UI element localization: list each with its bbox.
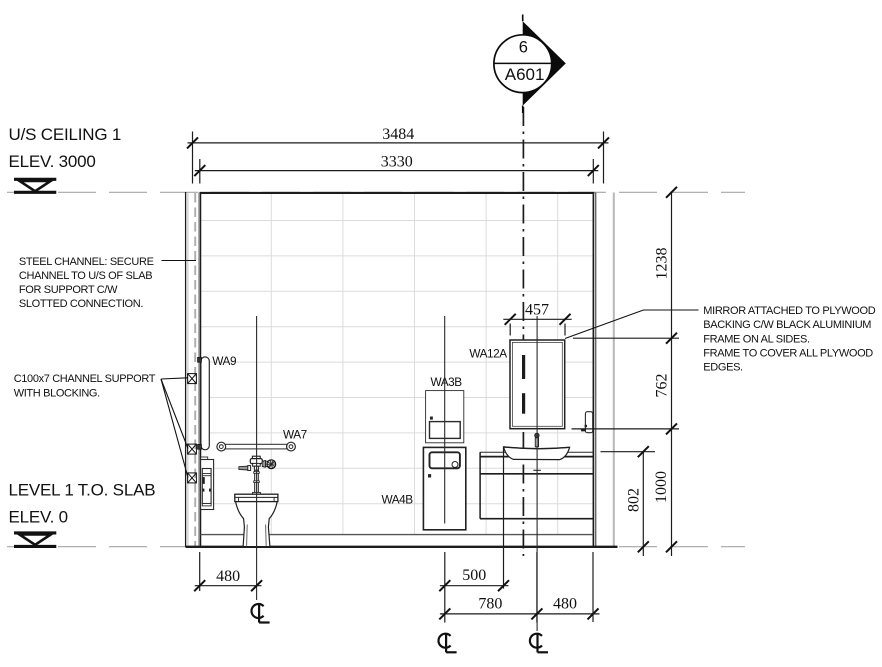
svg-text:480: 480 — [216, 568, 240, 585]
bottom dimension 500 — [440, 447, 509, 623]
blocking box 1 — [188, 374, 197, 384]
svg-text:802: 802 — [625, 488, 642, 512]
section marker A601 — [494, 15, 566, 114]
tick 780 mid — [531, 608, 542, 619]
svg-text:ELEV. 0: ELEV. 0 — [9, 508, 68, 527]
svg-text:ELEV. 3000: ELEV. 3000 — [9, 152, 96, 171]
tick 3484 right — [598, 137, 609, 148]
svg-text:FOR SUPPORT C/W: FOR SUPPORT C/W — [19, 284, 118, 296]
svg-text:MIRROR ATTACHED TO PLYWOOD: MIRROR ATTACHED TO PLYWOOD — [703, 305, 875, 317]
tick 480L right — [251, 580, 262, 591]
svg-text:762: 762 — [654, 374, 671, 398]
svg-text:480: 480 — [553, 595, 577, 612]
dispenser WA3B/WA4B centerline — [444, 316, 446, 524]
floor datum symbol — [14, 533, 56, 547]
steel channel dashed line — [194, 193, 196, 546]
tile grid verticals — [271, 194, 557, 535]
grab bar WA7 horizontal — [217, 442, 295, 451]
tick 480L left — [194, 580, 205, 591]
left wall outer line — [185, 192, 187, 547]
flush valve knurled knob — [267, 460, 276, 469]
dimension 3330 — [195, 159, 599, 184]
vanity drawer line — [480, 473, 593, 475]
WA9 wall mount bottom — [198, 444, 202, 449]
tick 500 right — [498, 580, 509, 591]
svg-text:EDGES.: EDGES. — [703, 362, 743, 374]
dimension 457 — [503, 319, 571, 335]
vessel sink bowl — [504, 447, 570, 460]
tick chain floor — [666, 541, 677, 552]
centerline symbol dispenser — [439, 634, 457, 653]
tick 457 right — [560, 314, 571, 325]
right wall inner face — [592, 192, 594, 547]
toilet paper dispenser unit — [201, 457, 214, 510]
mirror WA12A — [510, 340, 565, 429]
left wall gray liner — [187, 193, 189, 547]
tick chain mirror top — [666, 333, 677, 344]
svg-text:WA12A: WA12A — [469, 346, 507, 360]
section line inside mirror (heavy dashes) — [522, 355, 525, 414]
svg-text:3330: 3330 — [381, 154, 413, 171]
ceiling level dashed line — [7, 191, 745, 193]
tile grid horizontals — [201, 221, 593, 504]
bottom dimension 780 — [440, 552, 600, 623]
vanity left edge — [479, 452, 481, 519]
tick 3330 right — [588, 165, 599, 176]
paper towel dispenser WA3B — [426, 391, 464, 443]
right wall second line — [595, 193, 597, 547]
grab bar WA9 vertical — [201, 357, 209, 450]
svg-text:CHANNEL TO U/S OF SLAB: CHANNEL TO U/S OF SLAB — [19, 270, 152, 282]
svg-text:1238: 1238 — [654, 248, 671, 280]
svg-text:WITH BLOCKING.: WITH BLOCKING. — [14, 388, 100, 400]
left wall gray inner liner — [198, 193, 200, 547]
svg-text:457: 457 — [525, 301, 549, 318]
tick 802 floor — [638, 541, 649, 552]
svg-text:BACKING C/W BLACK ALUMINIUM: BACKING C/W BLACK ALUMINIUM — [703, 319, 871, 331]
sink centerline — [536, 316, 538, 631]
sink rim line — [504, 447, 570, 449]
svg-text:SLOTTED CONNECTION.: SLOTTED CONNECTION. — [19, 298, 143, 310]
svg-text:A601: A601 — [505, 65, 545, 84]
waste receptacle WA4B — [423, 447, 465, 529]
toilet WC — [235, 494, 278, 546]
tick 802 top — [638, 446, 649, 457]
WA9 wall mount top — [198, 357, 202, 362]
toilet fixture centerline — [256, 316, 258, 600]
left wall inner face — [199, 192, 201, 547]
svg-text:U/S CEILING 1: U/S CEILING 1 — [9, 125, 122, 144]
bottom dimension 480 left — [195, 552, 262, 591]
centerline symbol toilet — [252, 604, 270, 623]
ceiling datum symbol — [14, 179, 56, 192]
right dimension chain line — [572, 192, 680, 556]
vanity counter top — [480, 451, 593, 453]
floor level dashed line — [7, 546, 745, 548]
blocking box 3 — [188, 473, 197, 483]
right wall gray outer line — [613, 193, 615, 547]
tick 480R right — [588, 608, 599, 619]
blocking box 2 — [188, 444, 197, 454]
section cut centerline — [522, 107, 524, 556]
svg-text:WA4B: WA4B — [382, 493, 414, 507]
centerline symbol sink — [530, 634, 548, 653]
tick 500 left — [439, 580, 450, 591]
tick 457 left — [505, 314, 516, 325]
svg-text:STEEL CHANNEL: SECURE: STEEL CHANNEL: SECURE — [19, 256, 154, 268]
svg-text:WA3B: WA3B — [431, 375, 463, 389]
svg-text:WA7: WA7 — [283, 427, 307, 441]
svg-text:500: 500 — [462, 567, 486, 584]
room ceiling line — [200, 192, 595, 194]
sink centerline cross tick — [533, 469, 541, 471]
tick 3484 left — [187, 137, 198, 148]
tick chain ceiling — [666, 187, 677, 198]
svg-text:6: 6 — [519, 38, 528, 56]
C100x7 leaders — [161, 378, 188, 478]
svg-text:FRAME ON AL SIDES.: FRAME ON AL SIDES. — [703, 333, 810, 345]
dimension 3484 — [188, 132, 609, 184]
tick 3330 left — [194, 165, 205, 176]
vanity bottom — [480, 518, 593, 520]
svg-text:780: 780 — [478, 595, 502, 612]
svg-text:LEVEL 1 T.O. SLAB: LEVEL 1 T.O. SLAB — [9, 481, 156, 500]
svg-text:3484: 3484 — [382, 126, 414, 143]
floor slab line — [186, 546, 618, 548]
svg-text:WA9: WA9 — [212, 354, 236, 368]
steel channel leader — [162, 260, 197, 262]
svg-text:FRAME TO COVER ALL PLYWOOD: FRAME TO COVER ALL PLYWOOD — [703, 348, 873, 360]
flush valve — [250, 456, 267, 470]
soap dispenser on right wall — [581, 412, 593, 433]
tick chain mirror bottom — [666, 423, 677, 434]
faucet — [535, 433, 539, 447]
svg-text:C100x7 CHANNEL SUPPORT: C100x7 CHANNEL SUPPORT — [14, 373, 156, 385]
vanity counter front edge — [480, 456, 593, 458]
flush pipe — [253, 470, 261, 494]
svg-text:1000: 1000 — [653, 471, 670, 503]
mirror leader — [565, 310, 699, 339]
flush valve handle — [239, 466, 251, 471]
floor finish line — [200, 534, 593, 536]
tick 780 left — [439, 608, 450, 619]
